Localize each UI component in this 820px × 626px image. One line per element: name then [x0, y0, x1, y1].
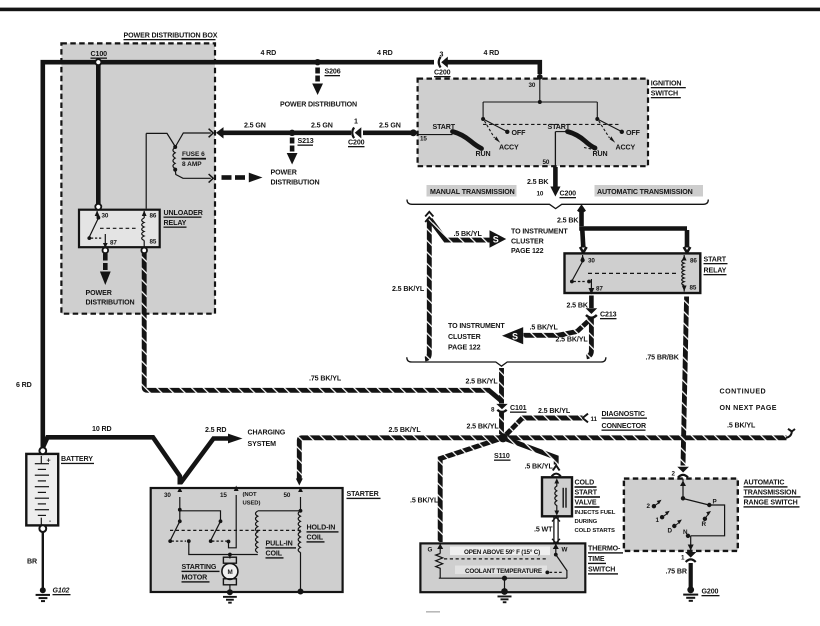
svg-text:COOLANT TEMPERATURE: COOLANT TEMPERATURE — [465, 568, 542, 575]
svg-text:CHARGING: CHARGING — [248, 429, 286, 437]
svg-text:START: START — [704, 256, 727, 264]
svg-text:ACCY: ACCY — [499, 144, 519, 152]
svg-text:POWER DISTRIBUTION BOX: POWER DISTRIBUTION BOX — [124, 32, 218, 40]
svg-text:15: 15 — [420, 136, 427, 143]
svg-text:2.5 BK/YL: 2.5 BK/YL — [392, 285, 425, 293]
svg-text:S: S — [512, 331, 518, 341]
svg-text:2.5 BK/YL: 2.5 BK/YL — [389, 426, 422, 434]
svg-text:3: 3 — [440, 51, 444, 59]
svg-text:TIME: TIME — [588, 555, 605, 563]
svg-text:G: G — [428, 547, 433, 554]
svg-text:1: 1 — [354, 118, 358, 126]
svg-text:SWITCH: SWITCH — [651, 90, 678, 98]
svg-text:RELAY: RELAY — [164, 219, 187, 227]
svg-text:2.5 GN: 2.5 GN — [244, 122, 266, 130]
svg-text:30: 30 — [588, 258, 595, 265]
svg-text:2.5 BK/YL: 2.5 BK/YL — [556, 336, 589, 344]
svg-text:DURING: DURING — [575, 519, 598, 525]
svg-text:AUTOMATIC TRANSMISSION: AUTOMATIC TRANSMISSION — [597, 188, 693, 196]
svg-text:.5 WT: .5 WT — [534, 526, 553, 534]
svg-text:STARTER: STARTER — [347, 490, 379, 498]
svg-text:C200: C200 — [348, 139, 365, 147]
svg-text:2.5 GN: 2.5 GN — [311, 122, 333, 130]
svg-text:2.5 BK/YL: 2.5 BK/YL — [538, 407, 571, 415]
svg-text:85: 85 — [690, 285, 697, 292]
svg-text:W: W — [562, 547, 568, 554]
svg-text:R: R — [702, 521, 707, 528]
svg-text:IGNITION: IGNITION — [651, 80, 682, 88]
svg-text:10: 10 — [537, 191, 544, 198]
svg-text:START: START — [433, 123, 456, 131]
svg-text:PULL-IN: PULL-IN — [266, 540, 293, 548]
svg-text:BATTERY: BATTERY — [61, 455, 93, 463]
svg-text:50: 50 — [284, 492, 291, 499]
svg-text:(NOT: (NOT — [243, 492, 257, 498]
svg-text:SWITCH: SWITCH — [588, 566, 615, 574]
svg-text:RUN: RUN — [593, 150, 608, 158]
svg-text:+: + — [47, 457, 51, 465]
svg-text:87: 87 — [110, 240, 117, 247]
svg-text:G200: G200 — [702, 588, 719, 596]
svg-text:CLUSTER: CLUSTER — [448, 333, 481, 341]
svg-text:.5 BK/YL: .5 BK/YL — [454, 230, 483, 238]
svg-text:FUSE 6: FUSE 6 — [182, 151, 205, 158]
svg-text:87: 87 — [596, 286, 603, 293]
svg-text:N: N — [683, 529, 688, 536]
svg-text:MANUAL TRANSMISSION: MANUAL TRANSMISSION — [430, 188, 515, 196]
svg-text:STARTING: STARTING — [182, 563, 217, 571]
svg-text:POWER: POWER — [86, 289, 112, 297]
svg-text:2.5 RD: 2.5 RD — [205, 426, 226, 434]
svg-text:.75 BK/YL: .75 BK/YL — [309, 375, 342, 383]
svg-text:10 RD: 10 RD — [92, 425, 112, 433]
svg-text:2.5 BK: 2.5 BK — [567, 302, 589, 310]
svg-text:RUN: RUN — [476, 150, 491, 158]
svg-text:-: - — [49, 518, 51, 525]
svg-text:C100: C100 — [91, 50, 108, 58]
svg-text:15: 15 — [220, 492, 227, 499]
svg-text:CLUSTER: CLUSTER — [511, 238, 544, 246]
svg-text:USED): USED) — [243, 501, 261, 507]
svg-text:86: 86 — [690, 258, 697, 265]
svg-text:S213: S213 — [298, 137, 314, 145]
svg-text:CONNECTOR: CONNECTOR — [602, 422, 647, 430]
svg-text:8 AMP: 8 AMP — [182, 161, 202, 168]
svg-text:.5 BK/YL: .5 BK/YL — [410, 497, 439, 505]
svg-text:P: P — [713, 499, 717, 506]
svg-text:DIAGNOSTIC: DIAGNOSTIC — [602, 410, 645, 418]
svg-text:C200: C200 — [434, 69, 451, 77]
svg-text:POWER DISTRIBUTION: POWER DISTRIBUTION — [280, 101, 357, 109]
svg-text:4 RD: 4 RD — [377, 49, 393, 57]
svg-text:INJECTS FUEL: INJECTS FUEL — [575, 510, 616, 516]
svg-text:.75 BR: .75 BR — [666, 568, 687, 576]
svg-text:START: START — [548, 123, 571, 131]
svg-text:CONTINUED: CONTINUED — [720, 388, 767, 396]
svg-text:30: 30 — [529, 82, 536, 89]
svg-text:2.5 GN: 2.5 GN — [379, 122, 401, 130]
svg-text:VALVE: VALVE — [575, 499, 597, 507]
svg-text:2.5 BK/YL: 2.5 BK/YL — [466, 378, 499, 386]
svg-text:11: 11 — [591, 416, 598, 423]
svg-text:C101: C101 — [510, 404, 527, 412]
svg-text:THERMO-: THERMO- — [588, 545, 621, 553]
svg-text:S: S — [493, 235, 499, 245]
svg-text:UNLOADER: UNLOADER — [164, 209, 203, 217]
svg-text:4 RD: 4 RD — [484, 49, 500, 57]
svg-text:HOLD-IN: HOLD-IN — [307, 524, 336, 532]
svg-text:ACCY: ACCY — [616, 144, 636, 152]
svg-text:6 RD: 6 RD — [16, 381, 32, 389]
svg-text:MOTOR: MOTOR — [182, 574, 208, 582]
svg-text:TO INSTRUMENT: TO INSTRUMENT — [448, 322, 505, 330]
svg-text:COIL: COIL — [266, 550, 283, 558]
svg-text:TO INSTRUMENT: TO INSTRUMENT — [511, 228, 568, 236]
svg-text:2.5 BK: 2.5 BK — [527, 178, 549, 186]
svg-text:COLD: COLD — [575, 479, 595, 487]
svg-text:COIL: COIL — [307, 534, 324, 542]
svg-text:BR: BR — [27, 558, 37, 566]
svg-text:START: START — [575, 489, 598, 497]
svg-text:2.5 BK/YL: 2.5 BK/YL — [467, 423, 500, 431]
svg-text:PAGE 122: PAGE 122 — [511, 247, 544, 255]
svg-text:TRANSMISSION: TRANSMISSION — [744, 489, 797, 497]
svg-text:POWER: POWER — [271, 169, 297, 177]
svg-text:OPEN ABOVE 59° F (15° C): OPEN ABOVE 59° F (15° C) — [464, 548, 540, 556]
svg-text:ON NEXT PAGE: ON NEXT PAGE — [720, 404, 777, 412]
svg-text:G102: G102 — [53, 587, 70, 595]
svg-text:DISTRIBUTION: DISTRIBUTION — [271, 179, 320, 187]
svg-text:85: 85 — [150, 239, 157, 246]
svg-text:OFF: OFF — [512, 129, 527, 137]
svg-text:COLD STARTS: COLD STARTS — [575, 528, 616, 534]
svg-text:30: 30 — [102, 213, 109, 220]
svg-text:SYSTEM: SYSTEM — [248, 440, 277, 448]
svg-text:DISTRIBUTION: DISTRIBUTION — [86, 299, 135, 307]
svg-text:AUTOMATIC: AUTOMATIC — [744, 479, 785, 487]
svg-text:D: D — [668, 528, 673, 535]
svg-text:RANGE SWITCH: RANGE SWITCH — [744, 499, 798, 507]
svg-text:.5 BK/YL: .5 BK/YL — [727, 422, 756, 430]
svg-text:50: 50 — [543, 159, 550, 166]
svg-text:M: M — [228, 569, 233, 576]
svg-text:S110: S110 — [494, 452, 510, 460]
svg-text:4 RD: 4 RD — [261, 49, 277, 57]
svg-text:PAGE 122: PAGE 122 — [448, 344, 481, 352]
svg-text:C200: C200 — [560, 190, 577, 198]
svg-text:30: 30 — [164, 492, 171, 499]
svg-text:.75 BR/BK: .75 BR/BK — [646, 354, 680, 362]
svg-text:OFF: OFF — [626, 129, 641, 137]
svg-text:RELAY: RELAY — [704, 267, 727, 275]
svg-text:.5 BK/YL: .5 BK/YL — [525, 463, 554, 471]
svg-text:86: 86 — [150, 213, 157, 220]
svg-text:.5 BK/YL: .5 BK/YL — [530, 324, 559, 332]
svg-text:S206: S206 — [325, 68, 341, 76]
svg-text:2.5 BK: 2.5 BK — [557, 217, 579, 225]
svg-text:C213: C213 — [600, 311, 617, 319]
